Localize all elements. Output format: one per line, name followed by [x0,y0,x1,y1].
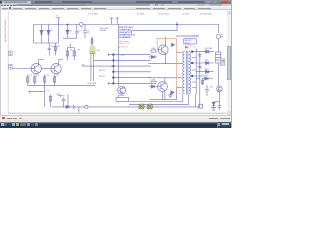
resistor R15 [44,75,46,86]
wire bend D [199,53,201,108]
resistor R60 [49,95,51,107]
wire emitter return [150,87,177,99]
wire opto drop [118,94,120,97]
svg-text:D26: D26 [205,75,208,77]
transistor Q2 power [158,82,168,92]
svg-text:C12: C12 [51,46,54,48]
wire secondary taps [192,52,206,88]
junction bus column [112,53,114,84]
wire between drivers [41,68,51,70]
svg-text:250VAC: 250VAC [100,29,108,32]
svg-text:5A: 5A [221,35,224,38]
node J2 [85,105,88,108]
svg-text:R3: R3 [46,75,48,77]
connector AC input [9,64,12,69]
svg-text:by KST 03: by KST 03 [118,46,128,48]
svg-text:C30: C30 [210,87,213,89]
svg-text:D23 SBL2040: D23 SBL2040 [200,14,212,16]
wire AC feed [12,68,31,70]
wire lower-left stub [29,90,45,93]
diode D15 [66,105,69,108]
wire driver tops [39,60,63,66]
resistor R11 [66,48,68,61]
transformer T1 primary winding [183,52,185,94]
wire Q2 collector [164,78,166,83]
svg-text:0.1: 0.1 [87,33,90,35]
thermistor TH2 [147,104,152,109]
svg-text:D5: D5 [70,30,72,32]
ground under Q2 [168,92,172,97]
status bar [0,115,231,122]
svg-text:R7: R7 [82,64,84,66]
resistor R13 [27,75,29,86]
diode D1 [41,25,43,44]
svg-text:R16 22: R16 22 [99,76,105,78]
wire drop x79 [78,107,80,113]
wire right bus lower [217,63,219,86]
wire fan 6 [108,82,151,85]
svg-text:drawn 13.3: drawn 13.3 [119,43,130,45]
wire bend A [129,94,183,101]
svg-text:R46: R46 [152,48,155,50]
page bottom frame [8,112,226,114]
capacitor C12 [48,43,51,56]
capacitor C6 [83,24,87,38]
svg-text:R6: R6 [78,50,80,52]
wire fan 2 [94,59,151,61]
transformer T1 core [186,51,188,95]
resistor R14 [34,75,36,86]
wire secondary bus [195,49,197,95]
LED legs [91,54,94,81]
wire fan 4 [113,71,150,73]
diode D7 [149,55,157,58]
junction dots secondary [191,50,193,77]
svg-text:+B: +B [55,16,58,18]
LED D30 [90,45,96,53]
svg-text:R60: R60 [57,94,60,96]
wire lower components [58,96,63,98]
wire primary bottom [149,77,183,79]
svg-text:T1: T1 [193,47,195,49]
svg-text:SCHEMATIC: SCHEMATIC [119,36,131,39]
wire bend B [129,94,189,104]
wire bottom rail [28,85,95,87]
wire fan 3 [82,65,151,67]
transistor Q3 [217,86,222,91]
page area [0,11,231,115]
label box EI-33 [184,39,196,44]
wire Q1 emitter [165,54,167,64]
wire cluster top [67,44,74,48]
diode D9 flyback [171,43,175,47]
svg-text:C5 C6 680u: C5 C6 680u [88,14,98,16]
note text block red [118,40,130,49]
resistor R50 [202,79,204,86]
wire main top bus [34,24,219,26]
transistor Q1 power [158,45,168,55]
diode D22 red [185,44,191,49]
wire right bus corner [217,24,219,33]
svg-text:C9: C9 [47,90,49,92]
resistor R16 [54,75,56,86]
wire fan 5 [113,77,150,79]
wire primary top [149,63,183,65]
wire mid-upper rail [63,37,77,39]
svg-text:C20: C20 [121,55,124,57]
diode D26 output [205,77,213,80]
label box GND [220,59,224,66]
thermistor TH1 [139,104,144,109]
connector J3 [199,104,203,108]
transistor Q5 driver [31,64,41,74]
svg-text:R1 330K: R1 330K [137,14,145,16]
wire Q2 emitter [164,90,166,99]
capacitor C14 [198,65,201,71]
node +B stub [56,18,60,43]
taskbar [0,122,231,128]
wire bend C [195,94,197,107]
fuse F2 [216,35,220,39]
capacitor C13 [198,55,201,60]
ground output [211,105,216,110]
svg-text:D23 SBL: D23 SBL [205,48,213,50]
svg-text:R5: R5 [70,50,72,52]
diode D25 output [206,70,214,73]
connector J4 left edge [9,51,13,56]
svg-text:R48: R48 [152,79,155,81]
svg-text:EI-33: EI-33 [185,42,190,44]
svg-text:D1: D1 [43,30,45,32]
svg-text:Q3: Q3 [217,91,220,93]
small labels blue [30,16,226,98]
svg-text:www.eserviceinfo: www.eserviceinfo [4,19,8,43]
switch SW1 115/230V [110,18,120,24]
resistor R2 base cluster [151,81,156,83]
svg-text:D30: D30 [97,50,100,52]
resistor R1 base cluster [151,50,156,52]
orange highlight box [157,38,176,93]
top parts list labels [88,14,212,16]
resistor R9 [54,43,56,56]
wire Q2 to return [162,92,164,100]
capacitor C31 [218,106,221,110]
svg-text:D25: D25 [205,68,208,70]
capacitor C30 [205,85,209,96]
diode D24 output [206,61,214,64]
wire lower-left riser [44,86,46,107]
diode D5 [67,25,69,39]
diode D27 [212,102,219,106]
svg-text:T1 EI-33: T1 EI-33 [182,14,189,16]
wire primary low stub [177,86,183,88]
vertical feed wire [118,24,120,86]
diode D8 [149,85,157,88]
inductor L2 [216,52,221,63]
svg-text:R1: R1 [30,75,32,77]
diode D10 flyback [170,91,174,95]
diode D2 [48,25,50,44]
junction dots [112,53,114,84]
wire output row stub [196,72,205,79]
wire feedback run [132,25,178,34]
resistor R12 [73,48,75,61]
junction node bus [176,22,178,24]
wire Q1 collector [165,37,167,47]
wire upper-left rail [34,25,59,44]
svg-text:R9: R9 [57,46,59,48]
svg-text:D2: D2 [50,30,52,32]
switch S2 [73,105,74,109]
svg-text:R2: R2 [37,75,39,77]
diode D23 output [206,50,214,53]
wire riser x68 [67,94,69,107]
node J1 [80,26,82,28]
wire driver emitters [36,73,56,76]
svg-text:D24: D24 [205,60,208,62]
page left frame [7,11,9,113]
svg-text:ATX TRANSFORMER: ATX TRANSFORMER [176,35,199,38]
svg-text:R15 22: R15 22 [99,70,105,72]
wire Q3 down [218,91,220,105]
red marks opto [119,92,124,95]
capacitor C7 [62,97,66,107]
svg-text:Q1 Q2 13007: Q1 Q2 13007 [158,14,169,16]
svg-text:R4: R4 [56,75,58,77]
wire fan 1 [108,53,151,56]
svg-text:C5: C5 [79,30,81,32]
resistor R18 [91,37,93,47]
svg-text:Q4: Q4 [122,88,125,90]
transistor Q6 driver [51,64,61,74]
transformer T1 secondary winding [189,52,191,94]
title text block blue [119,27,136,39]
svg-text:LED PWR: LED PWR [88,83,97,85]
wire primary mid stub [176,51,182,53]
capacitor C5 [75,24,79,38]
wire bottom long [52,106,200,108]
svg-text:C7: C7 [63,96,65,98]
transistor Q4 opto [118,86,126,94]
IC2 box [116,97,129,101]
